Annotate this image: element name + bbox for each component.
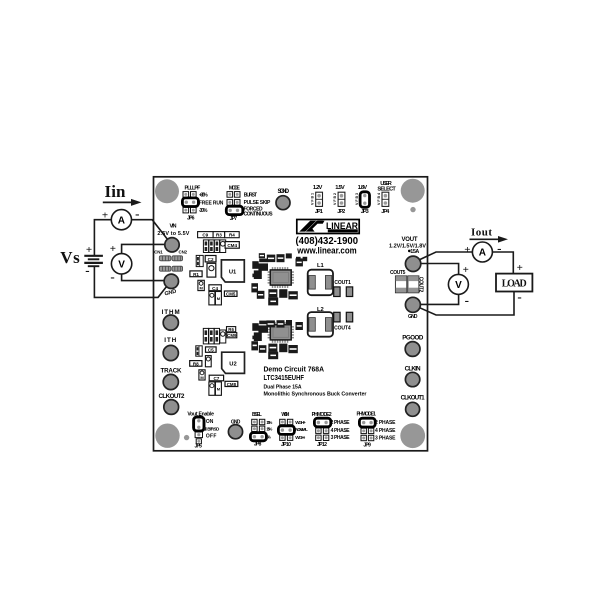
svg-text:Monolithic Synchronous Buck Co: Monolithic Synchronous Buck Converter [264, 391, 367, 397]
svg-text:C9: C9 [202, 233, 208, 238]
capacitor pads below C4 [209, 292, 215, 305]
svg-text:JP5: JP5 [194, 443, 202, 449]
resistor strip cluster near U2 [203, 328, 219, 344]
wire battery- to GND turret [94, 266, 170, 297]
svg-text:+: + [102, 209, 108, 221]
svg-text:CLKOUT1: CLKOUT1 [401, 396, 426, 402]
svg-text:FREE RUN: FREE RUN [199, 200, 224, 206]
wire battery+ to ammeter [94, 220, 111, 256]
svg-text:+: + [463, 264, 469, 276]
svg-text:ON: ON [206, 419, 214, 425]
capacitor CM6 [199, 370, 205, 380]
resistor R1 [190, 271, 202, 277]
svg-text:+: + [464, 244, 470, 256]
svg-text:CM8: CM8 [227, 382, 237, 387]
svg-text:C7: C7 [213, 376, 219, 381]
svg-text:CLKOUT2: CLKOUT2 [159, 393, 186, 400]
svg-text:SGND: SGND [278, 188, 290, 195]
wire ammeter to VIN turret [131, 220, 171, 245]
svg-text:+: + [517, 262, 523, 274]
svg-text:VFB4: VFB4 [377, 193, 381, 205]
svg-text:R1: R1 [193, 272, 199, 277]
IC U2 [222, 352, 245, 373]
voltmeter V1 [111, 254, 131, 274]
svg-text:BSEL: BSEL [252, 412, 262, 418]
turret CLKOUT1 [406, 402, 420, 416]
wire LOAD to GND turret [413, 292, 514, 316]
svg-text:JP3: JP3 [361, 209, 369, 215]
svg-text:15%: 15% [266, 427, 272, 432]
capacitor C6 pad [205, 356, 211, 367]
LT glyph [299, 221, 316, 232]
svg-text:-: - [110, 269, 114, 284]
svg-text:+30%: +30% [199, 193, 208, 199]
turret ITH [163, 345, 178, 360]
svg-text:PULSE SKIP: PULSE SKIP [244, 200, 271, 206]
wire voltmeter- to GND turret [122, 274, 166, 281]
svg-text:V: V [455, 280, 462, 291]
shunt on JP8 5% [250, 433, 266, 441]
svg-text:-: - [85, 263, 89, 278]
svg-text:VFB1: VFB1 [311, 193, 315, 205]
shunt on JP6 FREE RUN [182, 198, 198, 207]
svg-text:CM4: CM4 [227, 243, 237, 248]
resistor R6 [227, 327, 236, 332]
svg-text:JP2: JP2 [337, 209, 345, 215]
capacitor Q2 box [220, 330, 226, 343]
svg-text:VIN: VIN [170, 224, 177, 230]
svg-text:OFF: OFF [206, 433, 217, 439]
wire voltmeter- to GND turret [420, 294, 459, 304]
svg-text:www.linear.com: www.linear.com [296, 246, 356, 257]
TURRETS [154, 188, 426, 439]
svg-text:ITH: ITH [164, 337, 177, 344]
capacitor CM9 [227, 333, 237, 338]
load box [496, 274, 532, 292]
resistor pair left of C5 [196, 346, 202, 356]
svg-text:WGH+: WGH+ [295, 420, 306, 425]
svg-text:10%: 10% [266, 420, 272, 425]
svg-text:5%: 5% [266, 435, 271, 440]
capacitor CM8 [225, 381, 238, 386]
svg-text:GND: GND [231, 419, 241, 425]
svg-text:1.2V: 1.2V [313, 185, 323, 191]
svg-text:A: A [118, 215, 125, 226]
svg-text:R8: R8 [193, 361, 199, 366]
svg-text:B/RSD: B/RSD [207, 426, 220, 431]
svg-text:GND: GND [408, 314, 418, 320]
svg-text:-: - [517, 289, 521, 304]
turret TRACK [163, 374, 178, 389]
capacitor COUT4 [334, 312, 340, 322]
board outline [154, 177, 428, 451]
svg-text:CN2: CN2 [179, 250, 188, 255]
wire VOUT turret to ammeter [413, 252, 473, 264]
svg-text:R3: R3 [216, 233, 222, 238]
shunt on JP12 2 PHASE [314, 418, 330, 427]
svg-text:VFB2: VFB2 [333, 193, 337, 205]
svg-text:2 PHASE: 2 PHASE [375, 420, 396, 426]
mounting hole top-left [155, 179, 179, 203]
svg-text:1.2V/1.5V/1.8V: 1.2V/1.5V/1.8V [389, 244, 426, 250]
wire VOUT turret to voltmeter+ [420, 264, 459, 275]
shunt on JP7 FORCED CONTINUOUS [226, 206, 243, 214]
svg-text:L1: L1 [317, 263, 325, 269]
voltmeter V2 [448, 274, 468, 294]
LEFT-CIRCUIT [60, 182, 171, 297]
BOTTOMJUMPERS [187, 411, 396, 449]
svg-text:R6: R6 [228, 327, 234, 332]
turret GND bottom [228, 425, 242, 439]
svg-text:Vs: Vs [60, 248, 80, 267]
svg-text:TECHNOLOGY: TECHNOLOGY [329, 229, 357, 233]
svg-text:C5: C5 [208, 348, 214, 353]
mounting hole bottom-right [400, 423, 425, 448]
IC U3 QFN [268, 267, 294, 288]
turret GND right [405, 297, 420, 312]
capacitor CM4 [225, 242, 239, 249]
svg-text:PGOOD: PGOOD [402, 335, 424, 342]
turret PGOOD [405, 342, 420, 357]
svg-text:WGH: WGH [281, 412, 289, 418]
svg-text:WGH-: WGH- [295, 435, 305, 440]
svg-text:MODE: MODE [229, 186, 241, 192]
svg-text:JP8: JP8 [254, 442, 262, 448]
svg-text:COUT1: COUT1 [334, 280, 351, 286]
svg-text:4 PHASE: 4 PHASE [331, 428, 351, 434]
svg-text:3 PHASE: 3 PHASE [375, 435, 396, 441]
svg-text:1.8V: 1.8V [358, 185, 368, 191]
svg-text:CONTINUOUS: CONTINUOUS [244, 212, 274, 218]
svg-text:2 PHASE: 2 PHASE [331, 420, 351, 426]
svg-text:15A: 15A [410, 249, 419, 255]
turret SGND [276, 196, 290, 210]
resistor R10 pair [196, 255, 203, 266]
svg-text:3 PHASE: 3 PHASE [331, 435, 351, 441]
LOGO [264, 220, 367, 398]
wire voltmeter+ to VIN turret [122, 244, 167, 254]
svg-text:JP6: JP6 [187, 215, 195, 221]
Iin arrow [103, 201, 132, 203]
capacitor CM1 [198, 280, 204, 290]
svg-text:Iin: Iin [105, 182, 127, 201]
svg-text:2.5V to 5.5V: 2.5V to 5.5V [157, 231, 189, 237]
svg-text:1.5V: 1.5V [335, 185, 345, 191]
svg-text:Iout: Iout [471, 226, 492, 238]
capacitor C5 [206, 347, 217, 352]
mounting hole top-right [401, 179, 425, 203]
capacitor C4 [209, 285, 221, 291]
svg-text:COUT2: COUT2 [418, 277, 424, 293]
passives around U3 [251, 253, 307, 305]
svg-text:LOAD: LOAD [502, 279, 527, 290]
capacitor C7 [209, 375, 223, 381]
svg-text:JP1: JP1 [315, 209, 323, 215]
svg-text:TRACK: TRACK [161, 367, 183, 374]
svg-text:CLKIN: CLKIN [405, 365, 422, 372]
shunt on JP5 ON [194, 417, 204, 431]
svg-text:BURST: BURST [244, 193, 257, 199]
svg-text:CN1: CN1 [154, 250, 163, 255]
svg-text:V: V [118, 260, 125, 271]
svg-text:C4: C4 [212, 286, 218, 291]
CENTER [190, 232, 424, 396]
shunt on JP10 NOMINAL [278, 426, 294, 435]
capacitor CM5 [224, 291, 237, 296]
svg-text:U2: U2 [229, 361, 236, 367]
ammeter A2 [472, 242, 492, 262]
turret VOUT [405, 256, 420, 271]
svg-text:+: + [110, 243, 116, 255]
svg-text:PLLLPF: PLLLPF [185, 186, 201, 192]
svg-text:R4: R4 [229, 233, 235, 238]
svg-text:LTC3415EUHF: LTC3415EUHF [264, 373, 305, 382]
capacitor C2 [205, 256, 216, 262]
fiducial dot right [410, 207, 415, 212]
capacitor pads below C7 [209, 382, 215, 395]
svg-text:JP12: JP12 [317, 442, 327, 448]
Iout arrow [470, 238, 500, 240]
BOARD-BASE [154, 177, 428, 451]
svg-text:4 PHASE: 4 PHASE [375, 428, 396, 434]
TECHNOLOGY bar [328, 229, 358, 232]
capacitor C1 [207, 263, 216, 277]
svg-text:C2: C2 [208, 257, 214, 262]
svg-text:-: - [135, 206, 139, 221]
IC U1 [221, 260, 244, 282]
turret CLKOUT2 [164, 400, 179, 415]
resistor strip cluster near U1 [203, 240, 225, 253]
ammeter A1 [111, 210, 131, 230]
svg-text:-: - [497, 240, 501, 255]
svg-text:COUT5: COUT5 [390, 270, 406, 276]
svg-text:VOUT: VOUT [402, 237, 418, 243]
turret CLKIN [405, 372, 419, 386]
svg-text:CM9: CM9 [227, 333, 237, 338]
svg-text:PHMODE1: PHMODE1 [356, 412, 376, 418]
svg-text:JP10: JP10 [281, 442, 291, 448]
resistor R8 [190, 361, 202, 367]
TOPJUMPERS [182, 181, 396, 222]
svg-text:VFB3: VFB3 [355, 193, 359, 205]
turret GND left [164, 274, 178, 288]
Linear Technology logo box [297, 220, 359, 234]
svg-text:ITHM: ITHM [162, 309, 180, 316]
wire ammeter to LOAD [492, 252, 513, 274]
IC U4 QFN [268, 322, 294, 343]
svg-text:A: A [479, 248, 486, 259]
mounting hole bottom-left [155, 424, 179, 448]
svg-text:COUT4: COUT4 [334, 325, 351, 331]
svg-text:JP9: JP9 [363, 443, 371, 449]
svg-text:+: + [86, 244, 92, 256]
RIGHT-CIRCUIT [413, 226, 532, 315]
shunt on JP9 2 PHASE [359, 418, 375, 427]
svg-text:-30%: -30% [199, 208, 208, 214]
silk row C9 R3 R4 [198, 232, 240, 238]
fiducial dot bottom [184, 435, 189, 440]
svg-text:CM5: CM5 [226, 292, 236, 297]
passives around U4 [251, 320, 303, 359]
svg-text:U1: U1 [229, 269, 237, 275]
turret VIN [165, 238, 179, 252]
svg-text:Dual Phase 15A: Dual Phase 15A [264, 384, 302, 390]
svg-text:-: - [465, 293, 469, 308]
turret ITHM [163, 315, 178, 330]
svg-text:JP7: JP7 [230, 216, 238, 222]
svg-text:JP4: JP4 [381, 209, 390, 215]
svg-text:NOMINAL: NOMINAL [295, 427, 308, 432]
